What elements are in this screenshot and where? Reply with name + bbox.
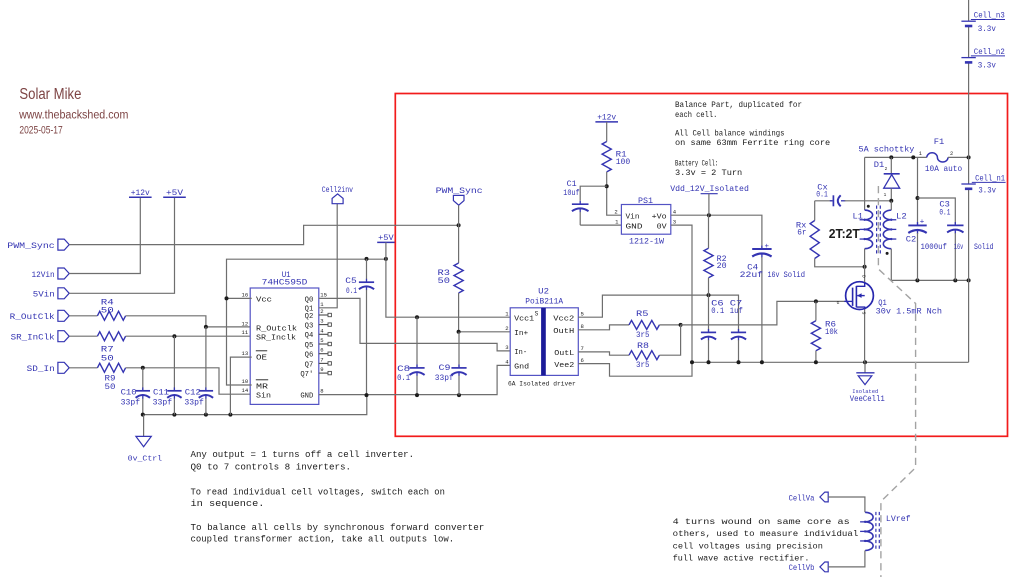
battery Cell_n3 3.3v — [961, 20, 975, 22]
junction rail 0V/Vee2 — [690, 360, 694, 364]
wire gate node to Q1 gate — [681, 301, 847, 325]
power +12v (top-left) — [129, 196, 152, 198]
wire Q1 gate stub — [844, 300, 852, 302]
svg-text:To balance all cells by synchr: To balance all cells by synchronous forw… — [191, 522, 485, 533]
wire C10 top lead — [142, 368, 144, 391]
svg-text:5A schottky: 5A schottky — [859, 146, 915, 155]
svg-text:5: 5 — [581, 310, 584, 317]
svg-text:Vcc2: Vcc2 — [553, 315, 574, 323]
svg-text:S: S — [861, 312, 867, 315]
resistor Rx 6r — [814, 201, 816, 221]
svg-text:CellVa: CellVa — [789, 493, 815, 503]
svg-text:coupled transformer action, ta: coupled transformer action, take all out… — [191, 534, 455, 545]
wire U1 OE to ground rail — [230, 357, 251, 415]
svg-text:Battery Cell:: Battery Cell: — [675, 159, 718, 168]
junction output gnd on battery rail — [967, 278, 971, 282]
svg-text:Vcc1: Vcc1 — [514, 315, 534, 323]
LVref core dashes (blue) — [875, 512, 877, 551]
svg-text:+5V: +5V — [166, 189, 183, 198]
junction D1 cathode — [889, 155, 893, 159]
svg-text:D1: D1 — [874, 161, 885, 170]
junction C1 branch — [605, 184, 609, 188]
port PWM_Sync (left input) — [58, 239, 69, 250]
svg-text:C11: C11 — [153, 388, 169, 397]
transistor Q1 mosfet — [846, 282, 874, 310]
transformer L1 winding 2T — [865, 210, 873, 249]
junction rail C4 — [760, 360, 764, 364]
svg-text:3r5: 3r5 — [636, 361, 650, 370]
svg-text:14: 14 — [241, 387, 248, 394]
wire C12 bottom lead — [205, 399, 207, 415]
junction rail C7 — [737, 360, 741, 364]
ground Isolated VeeCell1 — [864, 362, 866, 373]
wire +12v to R1 — [606, 122, 608, 142]
junction C8 top — [415, 315, 419, 319]
svg-text:GND: GND — [300, 393, 313, 401]
battery Cell_n1 3.3v — [961, 183, 975, 185]
svg-text:50: 50 — [438, 277, 451, 286]
svg-text:1212-1W: 1212-1W — [629, 238, 664, 247]
svg-text:CellVb: CellVb — [789, 563, 815, 573]
IC U1 74HC595D box — [250, 288, 319, 404]
svg-text:3: 3 — [505, 344, 508, 351]
port SR_InClk — [58, 331, 69, 342]
svg-text:Q4: Q4 — [305, 332, 314, 340]
svg-text:+12v: +12v — [131, 189, 150, 198]
IC U2 PoiB211A box — [510, 308, 578, 376]
port CellVa — [820, 492, 828, 502]
wire C12 top lead — [205, 327, 207, 391]
svg-text:50: 50 — [105, 383, 116, 392]
svg-text:C5: C5 — [345, 277, 357, 286]
capacitor C8 0.1 — [416, 317, 418, 368]
power +12v (above R1) — [595, 121, 618, 123]
svg-text:8: 8 — [581, 323, 584, 330]
svg-text:2: 2 — [505, 325, 508, 332]
svg-text:Solid: Solid — [974, 242, 994, 252]
fuse F1 10A auto — [927, 153, 948, 162]
junction C5 bottom on gnd rail — [365, 393, 369, 397]
svg-text:Q3: Q3 — [305, 323, 314, 331]
resistor R3 50 — [454, 263, 463, 293]
inductor LVref 4 turns — [865, 512, 873, 550]
svg-text:16: 16 — [241, 291, 248, 298]
svg-text:LVref: LVref — [886, 514, 911, 524]
svg-text:PWM_Sync: PWM_Sync — [436, 186, 483, 196]
svg-text:+12v: +12v — [597, 114, 616, 123]
svg-text:50: 50 — [101, 354, 114, 363]
junction R5/R8 gate node — [679, 323, 683, 327]
svg-text:R_Outclk: R_Outclk — [256, 326, 297, 334]
svg-text:10A auto: 10A auto — [925, 165, 962, 174]
svg-text:Vcc: Vcc — [256, 296, 272, 304]
resistor R2 20 — [708, 215, 710, 248]
wire +5V to U2 Vcc1 — [386, 242, 510, 317]
module PS1 1212-1W box — [621, 205, 670, 235]
wire battery stack vertical — [968, 0, 970, 21]
svg-text:C9: C9 — [439, 364, 451, 373]
wire R1 to PS1 Vin — [607, 172, 622, 215]
svg-text:1: 1 — [884, 193, 887, 198]
svg-text:GND: GND — [626, 223, 643, 231]
svg-text:C10: C10 — [121, 388, 137, 397]
capacitor C12 33pf — [199, 390, 213, 392]
capacitor C10 33pf — [136, 390, 150, 392]
port 5Vin — [58, 288, 69, 299]
svg-text:1: 1 — [919, 151, 922, 157]
svg-text:C2: C2 — [906, 236, 917, 245]
svg-text:22uf: 22uf — [740, 270, 764, 280]
svg-text:Q5: Q5 — [305, 342, 314, 350]
wire CellVa to LVref — [828, 497, 865, 512]
diode D1 schottky — [890, 157, 892, 173]
ground 0v_Ctrl — [136, 436, 151, 446]
svg-text:16v: 16v — [768, 271, 780, 280]
junction C10 bottom / ground drop — [141, 413, 145, 417]
wire PS1 +Vo to C4 — [671, 215, 762, 249]
junction C2 bottom — [915, 278, 919, 282]
capacitor Cx 0.1 (horizontal) — [832, 195, 834, 206]
svg-text:Any output = 1 turns off a cel: Any output = 1 turns off a cell inverter… — [191, 449, 415, 460]
svg-text:+Vo: +Vo — [652, 214, 667, 222]
svg-text:3r5: 3r5 — [636, 331, 650, 340]
wire U2 Vcc2 to Vdd_12V rail — [578, 295, 738, 332]
wire R7 to U1 pin11 — [126, 335, 252, 337]
svg-text:20: 20 — [717, 262, 727, 271]
svg-text:In+: In+ — [514, 330, 528, 338]
junction SD_In / C10 — [141, 366, 145, 370]
junction rail Q1 source / ground — [863, 360, 867, 364]
junction C12 bottom on rail — [204, 413, 208, 417]
svg-text:L2: L2 — [896, 212, 907, 221]
wire L2 bottom to output gnd wire — [891, 249, 968, 281]
wire R8 to gate node — [659, 325, 680, 355]
svg-text:4 turns wound on same core as: 4 turns wound on same core as — [673, 517, 850, 527]
svg-text:3.3v: 3.3v — [978, 25, 996, 34]
wire C1 bottom to PS1 GND — [580, 224, 621, 226]
wire 12Vin to +12v rail — [69, 197, 140, 273]
svg-text:2: 2 — [950, 151, 953, 157]
wire R_OutClk to R4 — [69, 315, 97, 317]
junction C2/C3 split — [916, 196, 920, 200]
svg-text:8: 8 — [320, 388, 323, 395]
junction C9 bottom on gnd rail — [457, 393, 461, 397]
junction R6 top on gate wire — [814, 299, 818, 303]
resistor R4 50 — [97, 311, 125, 320]
wire C2/C3 top riser — [917, 157, 919, 225]
svg-text:In-: In- — [514, 349, 527, 357]
wire U2 Vee2 to isolated rail — [578, 362, 692, 376]
wire 0v control ground rail — [143, 395, 367, 415]
svg-text:PWM_Sync: PWM_Sync — [7, 241, 54, 251]
wire ground symbol drop — [143, 415, 145, 437]
wire U1 Q1 to Cell2inv — [319, 204, 337, 308]
svg-text:6A Isolated driver: 6A Isolated driver — [508, 380, 576, 388]
svg-text:Isolated: Isolated — [852, 389, 878, 395]
svg-text:6r: 6r — [797, 229, 806, 238]
svg-text:D: D — [861, 275, 867, 278]
port SD_In — [58, 362, 69, 373]
junction R_OutClk / C12 — [204, 325, 208, 329]
svg-text:11: 11 — [241, 329, 248, 336]
svg-text:0.1: 0.1 — [346, 287, 357, 296]
junction C5 top on +5V wire — [365, 257, 369, 261]
svg-text:Vee2: Vee2 — [554, 362, 574, 370]
svg-text:Q2: Q2 — [305, 313, 314, 321]
port Cell2inv (up) — [332, 194, 343, 204]
power +5V (top-left) — [163, 196, 186, 198]
svg-text:33pf: 33pf — [121, 398, 141, 408]
svg-text:13: 13 — [241, 350, 248, 357]
svg-text:1uf: 1uf — [730, 306, 743, 316]
wire Q1 source to rail — [864, 309, 866, 362]
wire R5 to gate node — [659, 324, 680, 326]
svg-text:R8: R8 — [637, 342, 649, 351]
junction +5V vertical on +5V wire — [384, 257, 388, 261]
wire fuse-left net (5A schottky node) — [864, 157, 866, 210]
junction C8 bottom on gnd rail — [415, 393, 419, 397]
svg-text:Sin: Sin — [256, 393, 271, 401]
svg-text:2: 2 — [614, 209, 617, 216]
svg-text:Solid: Solid — [784, 270, 806, 280]
svg-text:SR_Inclk: SR_Inclk — [256, 334, 296, 342]
wire PS1 0V to isolated rail — [671, 225, 692, 362]
junction fuse output on battery rail — [967, 155, 971, 159]
svg-text:Gnd: Gnd — [514, 363, 529, 371]
transformer L2 winding 2T — [883, 210, 891, 249]
svg-text:S: S — [535, 310, 539, 317]
svg-text:6: 6 — [581, 357, 584, 364]
svg-text:U2: U2 — [538, 286, 549, 296]
svg-text:cell voltages using precision: cell voltages using precision — [673, 541, 823, 551]
svg-text:Balance Part, duplicated for: Balance Part, duplicated for — [675, 101, 802, 110]
capacitor C9 33pf — [458, 332, 460, 368]
svg-text:100: 100 — [616, 158, 631, 167]
svg-text:2025-05-17: 2025-05-17 — [19, 124, 62, 136]
svg-text:Solar Mike: Solar Mike — [19, 86, 81, 103]
resistor R9 50 — [97, 363, 125, 372]
junction rail C6 — [707, 360, 711, 364]
junction C11 bottom on rail — [172, 413, 176, 417]
wire 5Vin to +5V rail — [69, 197, 174, 293]
svg-text:MR: MR — [256, 383, 269, 391]
svg-text:3.3v = 2 Turn: 3.3v = 2 Turn — [675, 169, 742, 178]
wire U1 Q0 to U2 In- — [319, 298, 510, 351]
wire L1 bottom lead — [864, 249, 866, 267]
svg-text:Vin: Vin — [626, 214, 640, 222]
capacitor C7 1uf — [731, 331, 746, 333]
transformer core (blue dashed) — [876, 206, 878, 254]
svg-text:33pf: 33pf — [435, 373, 454, 383]
wire Cx to transformer node — [845, 200, 892, 202]
svg-text:0.1: 0.1 — [711, 307, 724, 316]
svg-text:15: 15 — [320, 291, 327, 298]
capacitor C5 0.1 — [366, 259, 368, 279]
svg-text:PS1: PS1 — [638, 196, 653, 206]
svg-text:50: 50 — [101, 307, 114, 316]
wire PWM_Sync pentagon to R3 — [458, 205, 460, 263]
junction R3/C9/In+ — [457, 330, 461, 334]
svg-text:SR_InClk: SR_InClk — [11, 333, 55, 343]
junction D1 anode / L2 top / snubber — [889, 199, 893, 203]
capacitor C6 0.1 — [708, 295, 710, 332]
svg-text:12Vin: 12Vin — [32, 270, 55, 280]
shared core dashed line — [878, 186, 915, 577]
wire L2 top lead — [890, 201, 892, 210]
svg-text:+5V: +5V — [378, 234, 394, 243]
resistor R6 10k — [815, 301, 817, 320]
svg-text:5: 5 — [320, 337, 323, 344]
resistor R5 3r5 — [629, 320, 659, 329]
wire R9 to U1 pin14 Sin — [126, 368, 252, 394]
wire U1 GND rail — [319, 365, 510, 394]
svg-text:C1: C1 — [567, 180, 577, 189]
balance-part red boundary box — [395, 94, 1007, 437]
wire C11 bottom lead — [173, 399, 175, 415]
wire Rx bottom to Q1 drain node — [815, 259, 865, 267]
svg-text:L1: L1 — [853, 212, 864, 221]
snubber wire Cx-Rx top — [815, 200, 833, 202]
junction SR_InClk / C11 — [172, 334, 176, 338]
wire R3 bottom to U2 In+ — [459, 293, 511, 332]
svg-text:F1: F1 — [934, 138, 945, 147]
svg-text:0.1: 0.1 — [939, 208, 950, 217]
junction C3 bottom — [953, 278, 957, 282]
svg-text:Q0 to 7 controls 8 inverters.: Q0 to 7 controls 8 inverters. — [191, 461, 352, 472]
svg-text:12: 12 — [241, 320, 248, 327]
svg-text:C8: C8 — [397, 365, 410, 374]
svg-text:Vdd_12V_Isolated: Vdd_12V_Isolated — [670, 184, 749, 194]
capacitor C3 0.1 — [947, 224, 963, 226]
svg-text:each cell.: each cell. — [675, 111, 717, 120]
svg-text:5Vin: 5Vin — [33, 290, 55, 300]
capacitor C1 10uf — [572, 203, 589, 205]
svg-text:1000uf: 1000uf — [921, 242, 947, 252]
svg-text:R7: R7 — [101, 346, 114, 355]
svg-text:6: 6 — [320, 347, 323, 354]
svg-text:Q0: Q0 — [305, 296, 314, 304]
svg-text:Q7': Q7' — [300, 371, 313, 379]
junction Vdd_12V_Isolated node — [707, 213, 711, 217]
svg-text:10: 10 — [241, 378, 248, 385]
wire CellVb to LVref — [828, 551, 865, 567]
port 12Vin — [58, 268, 69, 279]
resistor R7 50 — [97, 332, 125, 341]
svg-text:74HC595D: 74HC595D — [262, 278, 308, 288]
svg-text:All Cell balance windings: All Cell balance windings — [675, 130, 785, 139]
svg-text:10uf: 10uf — [563, 188, 580, 198]
wire C1 top — [580, 186, 607, 201]
wire isolated ground rail VeeCell1 — [692, 361, 969, 363]
svg-text:3.3v: 3.3v — [978, 62, 996, 71]
wire Q1 drain — [864, 267, 866, 282]
power +5V (near U1) — [377, 241, 394, 243]
svg-text:7: 7 — [581, 345, 584, 352]
junction C2 riser on fuse wire — [911, 155, 915, 159]
svg-text:in sequence.: in sequence. — [191, 498, 265, 509]
svg-text:OE: OE — [256, 354, 267, 362]
svg-text:10k: 10k — [825, 327, 838, 337]
resistor R8 3r5 — [629, 351, 659, 360]
junction PWM_Sync at R3 top — [457, 223, 461, 227]
svg-text:Cell2inv: Cell2inv — [322, 185, 353, 195]
resistor R1 100 — [602, 142, 611, 172]
capacitor C11 33pf — [167, 390, 181, 392]
wire U2 OutL to R8 — [578, 352, 629, 355]
svg-text:To read individual cell voltag: To read individual cell voltages, switch… — [191, 487, 445, 498]
svg-text:www.thebackshed.com: www.thebackshed.com — [18, 110, 128, 122]
wire U2 OutH to R5 — [578, 325, 629, 330]
svg-text:33pf: 33pf — [184, 398, 204, 408]
svg-text:PoiB211A: PoiB211A — [525, 297, 564, 307]
junction OE drop on rail — [228, 413, 232, 417]
svg-text:R_OutClk: R_OutClk — [10, 312, 55, 322]
wire SR_InClk to R7 — [69, 335, 97, 337]
svg-text:Q7: Q7 — [305, 361, 314, 369]
wire PWM_Sync net to R3/pentagon — [69, 225, 458, 244]
svg-text:VeeCell1: VeeCell1 — [850, 396, 885, 404]
transformer L1 phase dot — [867, 205, 870, 208]
svg-text:SD_In: SD_In — [27, 364, 55, 374]
svg-text:0v_Ctrl: 0v_Ctrl — [128, 455, 162, 463]
svg-text:full wave active rectifier.: full wave active rectifier. — [673, 554, 810, 564]
svg-text:0.1: 0.1 — [397, 374, 410, 383]
wire R4 to U1 pin12 — [126, 316, 252, 327]
svg-text:2: 2 — [885, 167, 888, 172]
svg-text:30v 1.5mR Nch: 30v 1.5mR Nch — [876, 307, 942, 316]
junction Vcc/MR riser — [225, 296, 229, 300]
svg-text:C12: C12 — [185, 388, 201, 397]
svg-text:others, used to measure indivi: others, used to measure individual — [673, 529, 859, 539]
svg-text:on same 63mm Ferrite ring core: on same 63mm Ferrite ring core — [675, 139, 830, 148]
port CellVb — [820, 562, 828, 572]
wire U1 Vcc/MR tie to +5V — [227, 298, 252, 385]
junction L1 bottom / Q1 drain — [863, 265, 867, 269]
wire C11 top lead — [173, 336, 175, 391]
wire C3 top branch — [918, 198, 956, 225]
svg-text:0V: 0V — [657, 223, 668, 231]
svg-text:Q6: Q6 — [305, 352, 314, 360]
svg-text:3: 3 — [320, 318, 323, 325]
svg-text:9: 9 — [320, 366, 323, 373]
svg-text:3.3v: 3.3v — [978, 187, 996, 196]
svg-text:OutH: OutH — [553, 328, 574, 336]
svg-text:33pf: 33pf — [153, 398, 173, 408]
svg-text:G: G — [837, 300, 840, 306]
battery Cell_n2 3.3v — [961, 57, 975, 59]
junction rail R6 — [814, 360, 818, 364]
svg-text:2T:2T: 2T:2T — [829, 227, 860, 241]
svg-text:7: 7 — [320, 356, 323, 363]
svg-text:R5: R5 — [636, 310, 649, 319]
svg-text:3: 3 — [673, 218, 676, 225]
svg-text:2: 2 — [320, 308, 323, 315]
junction R2 bottom on Vdd wire — [707, 293, 711, 297]
svg-text:OutL: OutL — [554, 350, 574, 358]
U1 unconnected pin stubs Q2-Q7 Q7' — [319, 314, 328, 316]
port R_OutClk — [58, 310, 69, 321]
svg-text:16v: 16v — [954, 243, 963, 252]
port PWM_Sync (top) — [453, 195, 464, 205]
wire SD_In to R9 — [69, 367, 97, 369]
svg-text:0.1: 0.1 — [816, 190, 828, 199]
transformer L2 phase dot — [886, 252, 889, 255]
